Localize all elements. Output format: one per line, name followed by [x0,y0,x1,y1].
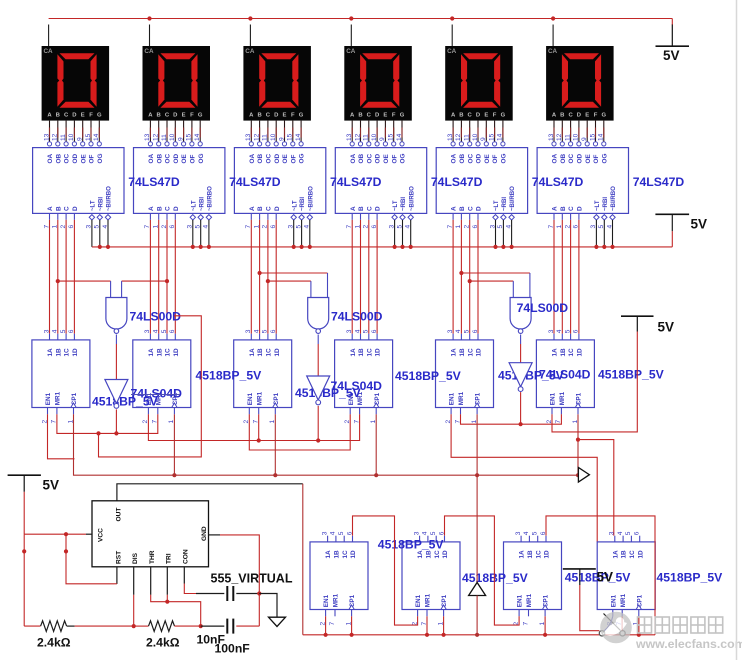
wire cascade B to C [445,516,520,625]
junction bottom bus [324,633,328,637]
svg-text:TRI: TRI [166,553,173,564]
svg-text:5V: 5V [597,570,614,585]
capacitor C2 [201,625,225,627]
power 5V VCC2 [655,214,707,231]
inverter 74LS04D U24 [509,363,532,392]
wires decoder U8 columns [150,220,209,334]
svg-text:GND: GND [201,526,208,541]
svg-text:5V: 5V [691,217,708,232]
junction CP6 branch [576,438,580,442]
7-segment display U1 (CA) [42,46,110,121]
svg-text:4518BP_5V: 4518BP_5V [378,538,445,552]
nand 74LS00D U20 [308,298,329,334]
wire pin drop bottom [544,616,546,635]
junction bottom bus [425,633,429,637]
svg-text:www.elecfans.com: www.elecfans.com [635,637,742,651]
junction TRI cap [199,624,203,628]
counter 4518BP_5V U14 [133,329,191,423]
svg-text:4518BP_5V: 4518BP_5V [598,368,665,382]
junction bus decoder 4 pin [393,245,397,249]
junction bus decoder 6 pin [610,245,614,249]
power 5V VCC3 [621,316,674,334]
svg-text:RST: RST [115,551,122,564]
wire VCC arrow drop [476,475,478,582]
wire NAND2 input from QC [268,280,311,282]
wires display U3 to decoder [245,25,303,146]
watermark logo [600,612,632,644]
junction inverter3 output [519,422,523,426]
wire DIS drop [133,567,135,595]
wires display U2 to decoder [144,25,202,146]
wire NAND2 input from QB [260,272,328,274]
junction bus decoder 1 pin [98,245,102,249]
decoder 74LS47D U7 [33,148,124,229]
7-segment display U3 (CA) [243,46,311,121]
svg-text:2.4kΩ: 2.4kΩ [37,636,71,650]
decoder 74LS47D U11 [436,148,527,229]
junction bottom bus [637,633,641,637]
wire inverter3 output to MR bus [520,392,522,424]
junction bus decoder 6 pin [594,245,598,249]
wire EN3-EN4 tie [249,414,350,450]
counter 4518BP_5V U25 [310,531,368,625]
wire MR reset bus pair 1 [57,414,158,433]
counter 4518BP_5V U28 [597,531,655,625]
decoder 74LS47D U12 [537,148,628,229]
svg-text:DIS: DIS [132,552,139,564]
wire MR reset bus pair 2 [148,414,359,440]
junction VCC rail [64,532,68,536]
wire inverter2 output to MR bus [317,406,319,441]
svg-text:74LS00D: 74LS00D [130,310,182,324]
wire RST stub [116,567,118,584]
svg-text:4518BP_5V: 4518BP_5V [462,571,529,585]
junction bus decoder 2 pin [199,245,203,249]
junction MR3 [257,438,261,442]
wire pin drop bottom [325,616,327,635]
counter 4518BP_5V U16 [335,329,393,423]
wire CP clock bus [74,414,579,475]
svg-text:74LS04D: 74LS04D [131,387,183,401]
junction bus decoder 6 pin [602,245,606,249]
junction bus decoder 2 pin [191,245,195,249]
page border [736,0,738,660]
junction THR/TRI [165,600,169,604]
svg-text:74LS00D: 74LS00D [517,301,569,315]
inverter 74LS04D U22 [105,380,128,409]
junction bus decoder 4 pin [409,245,413,249]
wire NAND3 output to inverter [520,335,522,345]
junction top bus display 5 [450,16,454,20]
svg-text:74LS04D: 74LS04D [331,379,383,393]
wire CP2 drop [173,414,175,475]
power 5V VCC1 [656,25,690,64]
nand 74LS00D U19 [106,298,127,334]
wire MR3 stub [258,414,260,440]
svg-text:74LS04D: 74LS04D [539,368,591,382]
power 5V VCC5 [563,569,613,585]
wire bus to 5V VCC2 [671,231,673,247]
wire MR reset bus pair 3 [461,414,562,424]
svg-text:4518BP_5V: 4518BP_5V [395,369,462,383]
wires decoder U7 columns [50,220,109,334]
wires display U5 to decoder [447,25,505,146]
resistor R1 2.4k [24,625,40,627]
junction CP2 [172,473,176,477]
wire cascade A to B [353,516,418,625]
junction CP3 [273,473,277,477]
counter 4518BP_5V U15 [234,329,292,423]
junction bus decoder 5 pin [510,245,514,249]
wire 5V to EN6 [552,332,637,432]
junction QB column pair 1 [56,279,60,283]
wire cascade C to D [546,516,655,635]
wire THR TRI tie [150,567,152,595]
wire TRI to C2 [167,602,200,626]
wire NAND1 input from QC [122,280,167,282]
svg-text:OUT: OUT [115,508,122,522]
svg-text:74LS47D: 74LS47D [330,175,382,189]
wires display U4 to decoder [346,25,404,146]
svg-text:74LS47D: 74LS47D [128,175,180,189]
power VCC arrow [469,583,486,596]
svg-text:100nF: 100nF [215,642,250,656]
junction top bus display 6 [551,16,555,20]
7-segment display U2 (CA) [143,46,211,121]
decoder 74LS47D U9 [234,148,325,229]
junction bus decoder 4 pin [400,245,404,249]
wire CP3 drop [274,414,276,475]
junction CP4 [374,473,378,477]
wire aux net W1 [99,316,202,457]
junction QC column pair 1 [165,279,169,283]
junction CP5 [475,473,479,477]
resistor R2 2.4k [134,625,149,627]
wires decoder U12 columns [554,220,613,334]
wire inverter1 output to MR bus [115,409,117,433]
wires display U1 to decoder [43,25,101,146]
wire MR-D stub [621,616,623,630]
inverter 74LS04D U23 [307,376,330,405]
wire to ground [259,594,277,618]
wire VCC arrow to bus [476,596,478,635]
svg-text:74LS47D: 74LS47D [431,175,483,189]
svg-text:THR: THR [149,550,156,564]
wire VCC rail drop A [23,534,25,626]
counter 4518BP_5V U26 [402,531,460,625]
wire GND net [209,534,221,536]
wire CP5 drop [476,414,478,475]
svg-text:74LS00D: 74LS00D [331,310,383,324]
wire top bus drop to 5V [671,19,673,26]
junction bottom bus [442,633,446,637]
svg-text:CON: CON [183,549,190,564]
junction top bus display 2 [147,16,151,20]
junction QB column pair 3 [459,271,463,275]
svg-text:74LS47D: 74LS47D [229,175,281,189]
wire CP-D drop [638,616,640,635]
junction bus decoder 5 pin [493,245,497,249]
svg-text:4518BP_5V: 4518BP_5V [657,571,724,585]
svg-text:74LS47D: 74LS47D [532,175,584,189]
junction bottom bus [543,633,547,637]
wire ~LT/~RBI/~BI bus [92,246,672,248]
counter 4518BP_5V U18 [536,329,594,423]
wire pin drop bottom [351,616,353,635]
svg-text:VCC: VCC [97,528,104,542]
counter 4518BP_5V U27 [504,531,562,625]
junction QC column pair 3 [468,279,472,283]
junction inverter2 output [316,438,320,442]
wires decoder U9 columns [251,220,309,334]
junction QC column pair 2 [266,279,270,283]
wire label strike pair1 [131,394,180,396]
junction top bus display 3 [248,16,252,20]
wire CP6 branch to bottom counter D [578,440,614,536]
junction bus decoder 3 pin [308,245,312,249]
wire VCC rail drop B to RST [66,534,114,584]
svg-text:2.4kΩ: 2.4kΩ [146,636,180,650]
junction bus decoder 2 pin [207,245,211,249]
counter 4518BP_5V U13 [32,329,90,423]
wires decoder U10 columns [352,220,411,334]
wire EN1 to CP bus [48,414,75,459]
junction arrow bus [475,633,479,637]
wire 555 OUT to bottom CP bus [117,484,303,501]
nand 74LS00D U21 [510,298,531,334]
junction bus decoder 5 pin [501,245,505,249]
junction inverter1 output [114,431,118,435]
watermark text [638,617,723,633]
capacitor C1 [196,593,224,595]
svg-text:74LS47D: 74LS47D [633,175,685,189]
svg-text:4518BP_5V: 4518BP_5V [196,369,263,383]
wire pin drop bottom [443,616,445,635]
wire EN-D to switch [604,616,613,631]
svg-text:5V: 5V [43,478,60,493]
7-segment display U4 (CA) [344,46,412,121]
7-segment display U6 (CA) [546,46,614,121]
wire 5V5 to switch [580,585,600,631]
power 5V VCC4 [8,475,59,492]
svg-text:555_VIRTUAL: 555_VIRTUAL [211,572,293,586]
wire 5V4 to VCC rail [23,492,25,534]
timer 555_VIRTUAL [92,501,209,567]
junction DIS [132,624,136,628]
junction bus decoder 3 pin [300,245,304,249]
decoder 74LS47D U8 [134,148,225,229]
wire NAND2 output to inverter [317,335,319,345]
junction drop B [64,549,68,553]
wire pin drop bottom [426,616,428,635]
connector arrow CP bus [578,468,589,483]
svg-text:5V: 5V [663,48,680,63]
wire NAND3 input from QB [461,272,530,274]
switch S1 [599,614,625,637]
ground [269,617,286,626]
wire 5V top bus [49,18,673,20]
counter 4518BP_5V U17 [436,329,494,423]
wire EN5 to bottom row D [451,414,597,542]
wires display U6 to decoder [548,25,606,146]
junction GND C1 [257,591,261,595]
junction bus decoder 3 pin [292,245,296,249]
junction drop A [22,549,26,553]
svg-text:5V: 5V [658,320,675,335]
wires decoder U11 columns [453,220,512,334]
wire NAND3 input from QC [470,280,514,282]
wire CON to C1 [183,567,185,584]
junction CP6 [576,473,580,477]
junction bus decoder 1 pin [106,245,110,249]
junction bottom bus [350,633,354,637]
wire CP4 drop [375,414,377,475]
decoder 74LS47D U10 [335,148,426,229]
wire CP6 drop [577,414,579,475]
junction aux on MR bus1 [96,431,100,435]
junction top bus display 4 [349,16,353,20]
junction QB column pair 2 [258,271,262,275]
wire NAND1 output to inverter [115,335,117,345]
wire bottom CP bus [303,634,655,636]
wire NAND1 input from QB [58,280,111,282]
wire pin drop bottom [638,616,640,635]
7-segment display U5 (CA) [445,46,513,121]
